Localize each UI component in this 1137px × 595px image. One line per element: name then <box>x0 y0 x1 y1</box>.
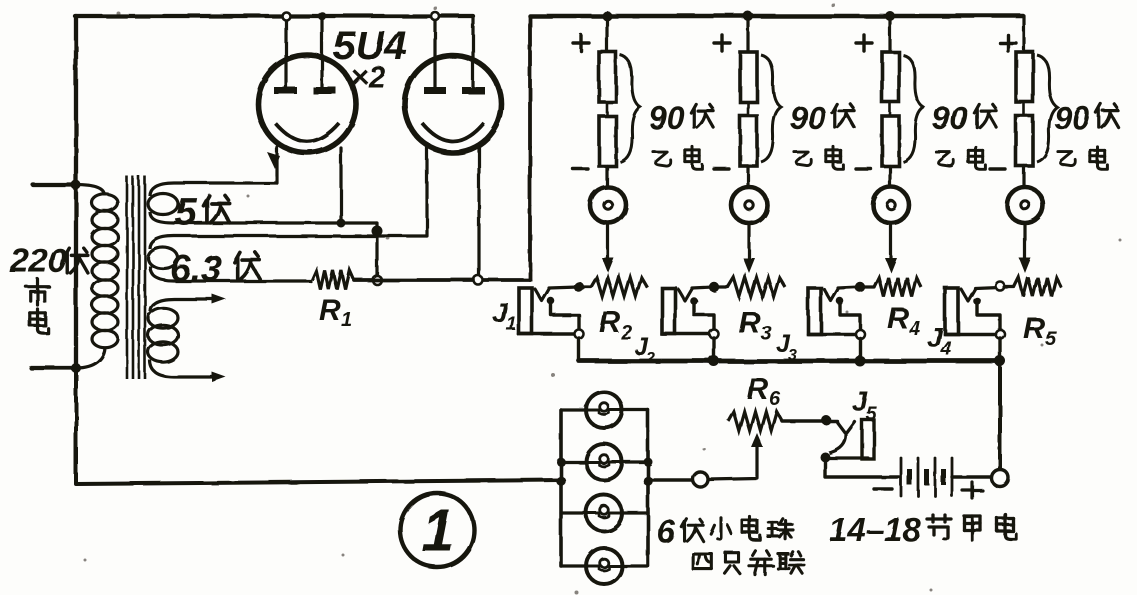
label battery plus <box>962 482 982 498</box>
svg-text:1: 1 <box>506 314 517 335</box>
transformer secondary aux winding <box>148 294 226 382</box>
rheostat R2 <box>583 278 647 297</box>
label 14-18 <box>829 511 921 548</box>
node feed J4 <box>996 282 1005 291</box>
wire junction drop <box>375 223 378 276</box>
label 90伏 col3 <box>932 100 996 136</box>
svg-text:R: R <box>747 373 769 406</box>
node bus J2 <box>709 356 720 367</box>
rheostat R6 <box>728 412 782 431</box>
label 市 <box>26 279 49 305</box>
battery B3 90V column <box>856 11 923 273</box>
lamp L4 <box>586 548 622 584</box>
svg-text:R: R <box>887 302 909 335</box>
label 6伏小电珠 <box>657 513 793 550</box>
label 乙电 col3 <box>936 147 985 170</box>
node lamp rail left b <box>556 476 566 486</box>
svg-text:5: 5 <box>1045 328 1057 350</box>
node R6 feed <box>821 415 831 425</box>
jack J2 <box>662 287 719 361</box>
wire V1 filament lead right <box>320 16 323 87</box>
svg-text:90: 90 <box>932 100 968 136</box>
label 节甲电 <box>927 514 1016 540</box>
svg-text:×2: ×2 <box>351 61 386 94</box>
svg-text:90: 90 <box>1054 100 1090 136</box>
svg-text:90: 90 <box>649 100 685 136</box>
transformer secondary 6.3V winding <box>148 236 427 281</box>
resistor R1 <box>312 271 354 290</box>
lamp bank rails <box>561 410 648 566</box>
battery A 14-18 cells <box>901 458 991 496</box>
svg-text:90: 90 <box>790 100 826 136</box>
wire mains stub upper <box>33 183 76 187</box>
transformer T1 core <box>127 176 145 379</box>
svg-text:2: 2 <box>620 322 632 344</box>
svg-text:4: 4 <box>940 339 952 360</box>
node mains lower <box>71 363 81 373</box>
label R1 <box>319 294 352 331</box>
jack J3 <box>808 287 865 361</box>
terminal lamp output <box>693 472 708 487</box>
wire middle bus <box>579 359 1000 364</box>
svg-text:4: 4 <box>908 318 920 340</box>
battery B4 90V column <box>990 16 1057 273</box>
wire bus to terminal <box>998 361 1002 469</box>
arrow R6 wiper <box>751 433 763 447</box>
label x2 <box>351 61 386 94</box>
label 6.3伏 <box>170 248 260 289</box>
node top terminal b <box>318 12 326 20</box>
wire left vertical <box>74 16 78 368</box>
node feed J3 <box>855 282 865 292</box>
tube V2 5U4 envelope <box>405 56 502 153</box>
label 电 <box>30 309 48 333</box>
label J3 <box>776 330 797 364</box>
rheostat R4 <box>864 278 921 297</box>
node ring V2 lead <box>474 276 483 285</box>
wire right section left vertical <box>528 16 532 280</box>
jack J1 <box>519 287 584 361</box>
wire R1 to corner <box>354 278 530 282</box>
wire to R6 wiper <box>708 447 757 479</box>
svg-text:5: 5 <box>175 191 198 234</box>
wire mains stub lower <box>31 366 76 370</box>
wire top horizontal <box>75 14 473 18</box>
label 乙电 col1 <box>653 147 702 170</box>
battery B2 90V column <box>714 11 781 273</box>
battery B1 90V column <box>573 11 640 273</box>
node top terminal a <box>282 12 290 20</box>
wire left vertical lower <box>76 368 561 484</box>
terminal output right <box>992 470 1009 487</box>
node mains upper <box>71 180 81 190</box>
lamp L2 <box>586 444 622 480</box>
svg-text:2: 2 <box>645 350 655 367</box>
label J1 <box>492 297 517 335</box>
transformer T1 primary winding <box>76 185 118 368</box>
wire lamp output <box>648 478 692 481</box>
svg-text:6: 6 <box>769 388 781 410</box>
figure number 1 <box>400 493 474 567</box>
wire V1 filament lead left <box>284 16 287 87</box>
wire top right bus <box>530 14 1023 19</box>
node bus J4 <box>995 356 1006 367</box>
label 90伏 col2 <box>790 100 854 136</box>
label J5 <box>852 386 877 425</box>
wire V2 plate lead left <box>425 148 428 236</box>
svg-text:R: R <box>1023 312 1045 345</box>
label R3 <box>739 307 772 345</box>
label 5伏 <box>175 191 230 234</box>
label 5U4 <box>333 24 406 68</box>
label 90伏 col1 <box>649 100 713 136</box>
node lamp rail left a <box>557 458 566 467</box>
wire V2 filament lead right <box>471 16 474 87</box>
label battery minus <box>874 487 892 490</box>
svg-text:220: 220 <box>9 242 67 280</box>
node top terminal c <box>431 12 439 20</box>
label 乙电 col4 <box>1058 147 1107 170</box>
label J4 <box>927 322 952 360</box>
label R5 <box>1023 312 1057 350</box>
rheostat R3 <box>718 278 785 297</box>
svg-text:1: 1 <box>421 497 454 564</box>
label J2 <box>634 333 655 367</box>
transformer secondary 5V winding <box>148 183 377 223</box>
node feed J2 <box>709 282 719 292</box>
node lamp rail right b <box>643 476 653 486</box>
label R4 <box>887 302 920 340</box>
wire V2 plate lead right <box>477 148 480 280</box>
svg-text:3: 3 <box>761 323 772 345</box>
svg-text:R: R <box>599 306 621 339</box>
node bus J3 <box>855 356 866 367</box>
svg-text:R: R <box>319 294 341 327</box>
node V1 to 5V winding <box>337 219 346 228</box>
label R6 <box>747 373 781 410</box>
label 90伏 col4 <box>1054 100 1118 136</box>
svg-text:6: 6 <box>657 513 676 550</box>
tube V1 5U4 envelope <box>258 55 356 153</box>
label 四只并联 <box>693 551 804 574</box>
jack J5 <box>820 420 899 477</box>
label R2 <box>599 306 632 344</box>
svg-text:5: 5 <box>866 404 877 425</box>
jack J4 <box>945 287 1005 361</box>
label 220伏 <box>9 242 88 280</box>
rheostat R5 <box>1004 278 1061 297</box>
node feed J1 <box>574 282 584 292</box>
svg-text:6.3: 6.3 <box>170 248 222 289</box>
svg-text:14–18: 14–18 <box>829 511 921 548</box>
lamp L3 <box>586 495 622 531</box>
wire V1 plate lead left <box>275 147 278 183</box>
node A-B junction <box>372 226 383 237</box>
wire V1 plate lead right <box>339 148 342 223</box>
node ring on R1 line <box>373 276 382 285</box>
node lamp rail right a <box>644 458 653 467</box>
svg-text:1: 1 <box>341 309 352 331</box>
wire V2 filament lead left <box>433 16 436 87</box>
label 乙电 col2 <box>794 147 843 170</box>
lamp L1 <box>586 392 622 428</box>
arrow V1 lead <box>267 152 280 169</box>
svg-text:R: R <box>739 307 761 340</box>
wire R6 to J5 <box>782 419 837 422</box>
